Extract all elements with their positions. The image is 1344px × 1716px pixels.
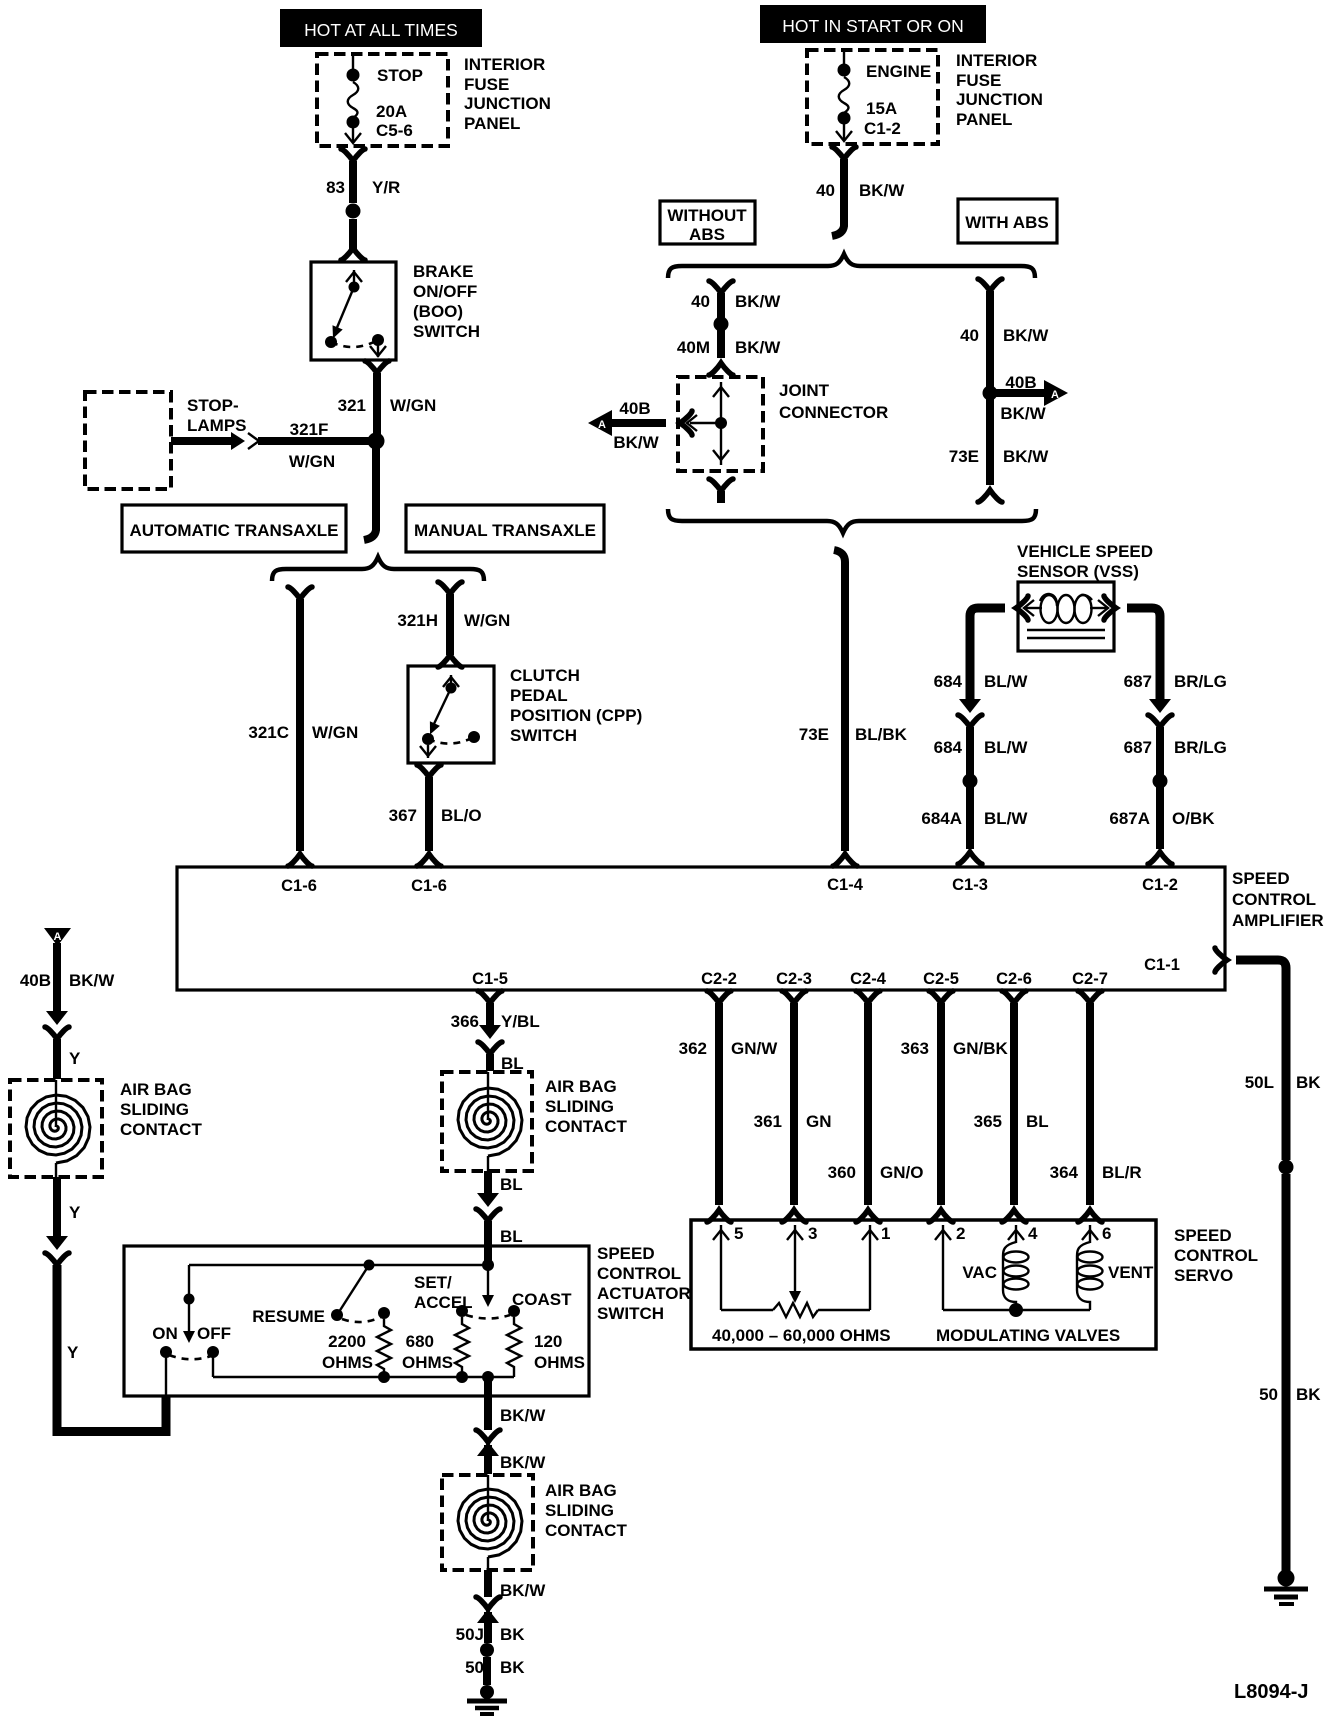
fork below amplifier C2-6	[1002, 991, 1026, 1003]
brace ABS merge	[668, 509, 1036, 533]
fork top of right ABS branch	[978, 279, 1002, 291]
fork top of left ABS branch	[709, 281, 733, 293]
svg-text:O/BK: O/BK	[1172, 809, 1215, 828]
contact 2200 top	[378, 1307, 390, 1319]
wire 40B BK/W (left)	[53, 943, 61, 1012]
svg-text:SLIDING: SLIDING	[545, 1501, 614, 1520]
connector fork below left fuse panel	[341, 149, 365, 161]
svg-text:Y/BL: Y/BL	[501, 1012, 540, 1031]
svg-text:C1-2: C1-2	[864, 119, 901, 138]
connector A arrow (to right)	[996, 373, 1068, 423]
svg-text:CONTROL: CONTROL	[1232, 890, 1316, 909]
svg-text:AIR BAG: AIR BAG	[120, 1080, 192, 1099]
label AIR BAG SLIDING CONTACT 1	[120, 1080, 202, 1139]
wire BK/W out of actuator	[484, 1377, 492, 1430]
svg-text:WITH ABS: WITH ABS	[965, 213, 1048, 232]
arrow down on BL	[477, 1193, 499, 1207]
actuator bottom bus	[213, 1376, 514, 1378]
svg-text:SET/: SET/	[414, 1273, 452, 1292]
wire 361 GN	[790, 1003, 798, 1205]
fork above servo pin 4	[1002, 1210, 1026, 1222]
svg-text:AIR BAG: AIR BAG	[545, 1481, 617, 1500]
svg-text:367: 367	[389, 806, 417, 825]
svg-text:W/GN: W/GN	[390, 396, 436, 415]
svg-text:BL/W: BL/W	[984, 809, 1028, 828]
svg-text:BK/W: BK/W	[69, 971, 115, 990]
svg-text:20A: 20A	[376, 102, 407, 121]
fork below joint connector	[709, 479, 733, 491]
fork above amplifier C1-2	[1148, 852, 1172, 864]
svg-text:CONTACT: CONTACT	[120, 1120, 202, 1139]
fork below BL arrow	[476, 1209, 500, 1221]
svg-text:GN/O: GN/O	[880, 1163, 923, 1182]
servo pin 2	[935, 1224, 965, 1310]
svg-text:SPEED: SPEED	[597, 1244, 655, 1263]
wire 684A BL/W	[966, 787, 974, 849]
svg-text:OHMS: OHMS	[534, 1353, 585, 1372]
svg-text:15A: 15A	[866, 99, 897, 118]
servo pin 5	[713, 1224, 743, 1310]
svg-text:687A: 687A	[1109, 809, 1150, 828]
svg-text:CONTROL: CONTROL	[597, 1264, 681, 1283]
OFF wire down to bottom bus	[212, 1352, 214, 1377]
svg-text:SENSOR (VSS): SENSOR (VSS)	[1017, 562, 1139, 581]
svg-text:W/GN: W/GN	[289, 452, 335, 471]
svg-text:SLIDING: SLIDING	[120, 1100, 189, 1119]
joint connector (dashed)	[678, 377, 763, 471]
svg-text:CONTACT: CONTACT	[545, 1117, 627, 1136]
node 40/40M	[714, 317, 729, 332]
svg-text:BL/O: BL/O	[441, 806, 482, 825]
svg-text:BK: BK	[1296, 1385, 1321, 1404]
svg-text:73E: 73E	[949, 447, 979, 466]
label VEHICLE SPEED SENSOR (VSS)	[1017, 542, 1153, 581]
svg-text:GN/BK: GN/BK	[953, 1039, 1009, 1058]
speed control actuator switch box	[124, 1246, 589, 1396]
fork top of 321H	[438, 582, 462, 594]
svg-text:SPEED: SPEED	[1174, 1226, 1232, 1245]
label JOINT CONNECTOR	[779, 381, 888, 422]
svg-text:321F: 321F	[290, 420, 329, 439]
fork above CPP switch	[438, 655, 462, 667]
svg-text:5: 5	[734, 1224, 743, 1243]
brace ABS split	[668, 254, 1035, 278]
svg-text:C1-6: C1-6	[281, 877, 317, 895]
svg-text:366: 366	[451, 1012, 479, 1031]
svg-text:BL/W: BL/W	[984, 672, 1028, 691]
svg-text:GN: GN	[806, 1112, 832, 1131]
wire BL to air bag contact 2	[486, 1054, 494, 1071]
fork above servo pin 5	[707, 1210, 731, 1222]
arrow up on 50J	[477, 1609, 499, 1623]
svg-text:Y: Y	[67, 1343, 79, 1362]
svg-text:40B: 40B	[619, 399, 650, 418]
svg-text:83: 83	[326, 178, 345, 197]
svg-text:FUSE: FUSE	[956, 71, 1001, 90]
resume contact	[331, 1309, 343, 1321]
svg-text:40: 40	[960, 326, 979, 345]
node 50L/50	[1279, 1160, 1294, 1175]
svg-text:JOINT: JOINT	[779, 381, 830, 400]
fork bottom of right ABS branch	[978, 490, 1002, 502]
wire 321C W/GN	[296, 599, 304, 851]
contact coast	[508, 1305, 520, 1317]
svg-text:BL/BK: BL/BK	[855, 725, 908, 744]
svg-text:HOT IN START OR ON: HOT IN START OR ON	[782, 16, 964, 36]
svg-text:50J: 50J	[456, 1625, 484, 1644]
svg-text:BR/LG: BR/LG	[1174, 672, 1227, 691]
svg-text:362: 362	[679, 1039, 707, 1058]
svg-text:CONTROL: CONTROL	[1174, 1246, 1258, 1265]
wire 40 BK/W (with ABS)	[986, 291, 994, 485]
svg-text:C2-2: C2-2	[701, 970, 737, 988]
fork below 366 arrow	[478, 1042, 502, 1054]
fork above joint connector	[709, 363, 733, 375]
svg-text:365: 365	[974, 1112, 1002, 1131]
svg-text:C1-1: C1-1	[1144, 956, 1180, 974]
dashed arc on/off	[169, 1355, 211, 1359]
arrow down on Y wire	[46, 1236, 68, 1250]
air bag sliding contact 2 (dashed)	[442, 1072, 532, 1171]
svg-text:BK/W: BK/W	[859, 181, 905, 200]
svg-text:AUTOMATIC TRANSAXLE: AUTOMATIC TRANSAXLE	[129, 521, 338, 540]
speed control servo box	[691, 1220, 1156, 1349]
resume switch arm	[337, 1265, 369, 1315]
label CLUTCH PEDAL POSITION (CPP) SWITCH	[510, 666, 642, 745]
svg-text:SLIDING: SLIDING	[545, 1097, 614, 1116]
svg-text:40: 40	[816, 181, 835, 200]
dashed arc set/coast	[466, 1315, 510, 1319]
clutch pedal position (CPP) switch	[408, 666, 494, 763]
svg-text:BK: BK	[1296, 1073, 1321, 1092]
header HOT AT ALL TIMES	[280, 9, 482, 47]
node resume arm top	[364, 1260, 375, 1271]
fork below amplifier C2-5	[929, 991, 953, 1003]
wire Y below air bag contact 1	[53, 1177, 61, 1237]
wire 687A O/BK	[1156, 787, 1164, 849]
fork 684 below arrow	[958, 715, 982, 727]
node actuator entry	[482, 1259, 494, 1271]
brace transaxle split	[272, 557, 484, 581]
svg-text:40: 40	[691, 292, 710, 311]
svg-text:73E: 73E	[799, 725, 829, 744]
servo pin 6	[1082, 1224, 1111, 1243]
fork below amplifier C2-3	[782, 991, 806, 1003]
arrow down on 684	[959, 699, 981, 713]
svg-text:MANUAL TRANSAXLE: MANUAL TRANSAXLE	[414, 521, 596, 540]
header HOT IN START OR ON	[760, 5, 986, 43]
svg-text:GN/W: GN/W	[731, 1039, 778, 1058]
manual transaxle box	[406, 505, 604, 552]
fork below amplifier C2-4	[856, 991, 880, 1003]
connector A arrow (down, top-left)	[44, 928, 71, 946]
set/accel entry arm	[482, 1265, 494, 1307]
svg-text:50L: 50L	[1245, 1073, 1274, 1092]
svg-text:OHMS: OHMS	[402, 1353, 453, 1372]
label STOP-LAMPS	[187, 396, 247, 435]
svg-text:SERVO: SERVO	[1174, 1266, 1233, 1285]
modulating valves bottom bus	[943, 1309, 1090, 1311]
svg-text:ABS: ABS	[689, 225, 725, 244]
wire 321 W/GN	[373, 373, 381, 436]
svg-text:C1-2: C1-2	[1142, 876, 1178, 894]
fork bottom of 321C	[288, 854, 312, 866]
svg-text:CONTACT: CONTACT	[545, 1521, 627, 1540]
switch contact ON	[160, 1346, 172, 1358]
label BRAKE ON/OFF (BOO) SWITCH	[413, 262, 480, 341]
svg-text:1: 1	[881, 1224, 890, 1243]
arrow up on BK/W	[477, 1442, 499, 1456]
node on/off feed	[184, 1294, 195, 1305]
svg-text:SWITCH: SWITCH	[413, 322, 480, 341]
node 680 bottom	[456, 1371, 468, 1383]
svg-text:ON: ON	[152, 1324, 178, 1343]
interior fuse junction panel box (left)	[317, 54, 448, 146]
label interior fuse junction panel (right)	[956, 51, 1043, 129]
svg-text:ON/OFF: ON/OFF	[413, 282, 477, 301]
svg-text:ENGINE: ENGINE	[866, 62, 931, 81]
wire 365 BL	[1010, 1003, 1018, 1205]
arrow down on 366	[479, 1025, 501, 1039]
wire 50 BK (right)	[1282, 1174, 1291, 1572]
wire 684 BL/W lower	[966, 727, 974, 775]
svg-text:C1-5: C1-5	[472, 970, 508, 988]
svg-text:WITHOUT: WITHOUT	[667, 206, 747, 225]
VSS left wire joint	[970, 596, 1028, 700]
svg-text:VENT: VENT	[1108, 1263, 1154, 1282]
svg-text:PANEL: PANEL	[464, 114, 520, 133]
svg-text:MODULATING VALVES: MODULATING VALVES	[936, 1326, 1120, 1345]
wire 364 BL/R	[1086, 1003, 1094, 1205]
label interior fuse junction panel (left)	[464, 55, 551, 133]
svg-text:(BOO): (BOO)	[413, 302, 463, 321]
svg-text:PANEL: PANEL	[956, 110, 1012, 129]
svg-text:HOT AT ALL TIMES: HOT AT ALL TIMES	[304, 20, 458, 40]
connector A arrow (to left)	[588, 399, 692, 452]
svg-text:360: 360	[828, 1163, 856, 1182]
wire BK/W below air bag contact 3	[484, 1570, 492, 1597]
svg-text:687: 687	[1124, 672, 1152, 691]
interior fuse junction panel box (right)	[807, 50, 938, 144]
label AIR BAG SLIDING CONTACT 3	[545, 1481, 627, 1540]
fork above amplifier C1-6	[417, 854, 441, 866]
svg-text:JUNCTION: JUNCTION	[464, 94, 551, 113]
svg-text:W/GN: W/GN	[312, 723, 358, 742]
svg-text:321C: 321C	[248, 723, 289, 742]
dashed arc resume	[342, 1317, 381, 1322]
svg-text:VEHICLE SPEED: VEHICLE SPEED	[1017, 542, 1153, 561]
svg-text:4: 4	[1028, 1224, 1038, 1243]
wire 40 BK/W (without ABS)	[717, 293, 725, 318]
svg-text:BK/W: BK/W	[500, 1453, 546, 1472]
svg-text:OFF: OFF	[197, 1324, 231, 1343]
svg-text:BK/W: BK/W	[1000, 404, 1046, 423]
svg-text:364: 364	[1050, 1163, 1079, 1182]
stop-lamps box (dashed)	[85, 392, 171, 489]
wire 360 GN/O	[864, 1003, 872, 1205]
air bag sliding contact 1 (dashed)	[10, 1080, 102, 1177]
node 40B branch	[983, 386, 998, 401]
svg-text:POSITION (CPP): POSITION (CPP)	[510, 706, 642, 725]
svg-text:321H: 321H	[397, 611, 438, 630]
wire Y to air bag contact 1	[53, 1039, 61, 1079]
svg-text:BRAKE: BRAKE	[413, 262, 473, 281]
svg-text:INTERIOR: INTERIOR	[464, 55, 545, 74]
svg-text:BL/R: BL/R	[1102, 1163, 1142, 1182]
wire 363 GN/BK	[937, 1003, 945, 1205]
speed control amplifier box	[177, 867, 1225, 990]
wire 73E BL/BK	[834, 550, 845, 851]
label SPEED CONTROL AMPLIFIER	[1232, 869, 1324, 930]
svg-text:STOP-: STOP-	[187, 396, 239, 415]
svg-text:BR/LG: BR/LG	[1174, 738, 1227, 757]
svg-text:INTERIOR: INTERIOR	[956, 51, 1037, 70]
wire BL below air bag contact 2	[484, 1171, 492, 1194]
wire 687 BR/LG lower	[1156, 727, 1164, 775]
air bag sliding contact 3 (dashed)	[442, 1475, 533, 1570]
fork below air bag 3	[476, 1597, 500, 1609]
svg-text:C2-5: C2-5	[923, 970, 959, 988]
svg-text:JUNCTION: JUNCTION	[956, 90, 1043, 109]
wire BK/W to air bag contact 3	[484, 1445, 492, 1474]
VENT modulating valve coil	[1077, 1242, 1154, 1310]
brake on/off (BOO) switch	[311, 262, 396, 360]
fork above amplifier C1-4	[833, 854, 857, 866]
connector fork below BOO switch	[365, 361, 389, 373]
resistor 2200 OHMS	[377, 1319, 391, 1374]
with ABS box	[958, 199, 1057, 243]
svg-text:C1-3: C1-3	[952, 876, 988, 894]
svg-text:PEDAL: PEDAL	[510, 686, 568, 705]
svg-text:C2-3: C2-3	[776, 970, 812, 988]
servo pin 3 with wiper arrow	[787, 1224, 817, 1303]
svg-text:AMPLIFIER: AMPLIFIER	[1232, 911, 1324, 930]
svg-text:680: 680	[406, 1332, 434, 1351]
svg-text:50: 50	[1259, 1385, 1278, 1404]
automatic transaxle box	[122, 505, 346, 552]
svg-text:40B: 40B	[20, 971, 51, 990]
wire 40M BK/W	[717, 330, 725, 358]
wire 40 BK/W	[832, 159, 844, 236]
junction node 321/321F	[368, 433, 385, 450]
connector fork below right fuse panel	[832, 147, 856, 159]
wire 366 Y/BL	[486, 1003, 494, 1031]
svg-text:BK/W: BK/W	[735, 338, 781, 357]
svg-text:COAST: COAST	[512, 1290, 572, 1309]
svg-text:ACTUATOR: ACTUATOR	[597, 1284, 691, 1303]
label AIR BAG SLIDING CONTACT 2	[545, 1077, 627, 1136]
svg-text:687: 687	[1124, 738, 1152, 757]
svg-text:Y: Y	[69, 1203, 81, 1222]
svg-text:VAC: VAC	[962, 1263, 997, 1282]
contact set/accel	[456, 1305, 468, 1317]
servo pin 4	[1008, 1224, 1038, 1243]
svg-text:BK/W: BK/W	[613, 433, 659, 452]
resistor 120 OHMS	[507, 1317, 521, 1374]
svg-text:C2-4: C2-4	[850, 970, 887, 988]
fork 687 below arrow	[1148, 715, 1172, 727]
svg-text:BK/W: BK/W	[500, 1406, 546, 1425]
svg-text:361: 361	[754, 1112, 782, 1131]
svg-text:684: 684	[934, 738, 963, 757]
actuator top bus wire	[189, 1246, 488, 1295]
wire Y down to corner	[57, 1265, 166, 1432]
svg-text:BL: BL	[1026, 1112, 1049, 1131]
svg-text:SWITCH: SWITCH	[510, 726, 577, 745]
svg-text:321: 321	[338, 396, 366, 415]
wire 362 GN/W	[715, 1003, 723, 1205]
svg-text:A: A	[1051, 389, 1059, 401]
fork below CPP switch	[417, 765, 441, 777]
vehicle speed sensor box	[1018, 582, 1114, 651]
fork below amplifier C1-5	[478, 991, 502, 1003]
svg-text:C1-6: C1-6	[411, 877, 447, 895]
svg-text:40,000 – 60,000 OHMS: 40,000 – 60,000 OHMS	[712, 1326, 891, 1345]
svg-text:C2-7: C2-7	[1072, 970, 1108, 988]
svg-text:40M: 40M	[677, 338, 710, 357]
svg-text:BK/W: BK/W	[1003, 447, 1049, 466]
wire 50 BK (left)	[483, 1657, 491, 1685]
wire 321F W/GN to stop-lamps	[171, 437, 372, 445]
svg-text:3: 3	[808, 1224, 817, 1243]
fuse ENGINE 15A C1-2	[836, 50, 931, 141]
connector fork above BOO switch	[341, 248, 365, 260]
without ABS box	[660, 201, 755, 244]
svg-text:2200: 2200	[328, 1332, 366, 1351]
svg-text:C2-6: C2-6	[996, 970, 1032, 988]
on/off switch arm	[183, 1304, 195, 1343]
fuse STOP 20A C5-6	[345, 54, 423, 143]
node 684/684A	[963, 774, 978, 789]
svg-text:OHMS: OHMS	[322, 1353, 373, 1372]
fork below amplifier C2-7	[1078, 991, 1102, 1003]
fork top of 321C	[288, 587, 312, 599]
svg-text:W/GN: W/GN	[464, 611, 510, 630]
svg-text:BK: BK	[500, 1658, 525, 1677]
node 50J/50	[480, 1643, 494, 1657]
fork above servo pin 1	[856, 1210, 880, 1222]
ground (right)	[1264, 1570, 1308, 1605]
svg-text:2: 2	[956, 1224, 965, 1243]
ground (left)	[467, 1685, 507, 1714]
svg-text:120: 120	[534, 1332, 562, 1351]
label SET/ACCEL	[414, 1273, 473, 1312]
wire 83 Y/R	[349, 161, 357, 203]
switch contact OFF	[207, 1346, 219, 1358]
ON wire down to box edge	[165, 1352, 167, 1396]
node on wire 83	[346, 204, 361, 219]
svg-text:SWITCH: SWITCH	[597, 1304, 664, 1323]
svg-text:CONNECTOR: CONNECTOR	[779, 403, 888, 422]
wire BL into actuator	[484, 1221, 492, 1248]
svg-text:C1-4: C1-4	[827, 876, 864, 894]
svg-text:BL: BL	[500, 1227, 523, 1246]
label SPEED CONTROL ACTUATOR SWITCH	[597, 1244, 691, 1323]
label SPEED CONTROL SERVO	[1174, 1226, 1258, 1285]
svg-text:684: 684	[934, 672, 963, 691]
arrow down on 687	[1149, 699, 1171, 713]
svg-text:50: 50	[465, 1658, 484, 1677]
svg-text:BK/W: BK/W	[1003, 326, 1049, 345]
node 687/687A	[1153, 774, 1168, 789]
wire 321H W/GN	[446, 594, 454, 655]
svg-text:C5-6: C5-6	[376, 121, 413, 140]
resistor 680 OHMS	[455, 1317, 469, 1374]
svg-text:STOP: STOP	[377, 66, 423, 85]
fork below amplifier C2-2	[707, 991, 731, 1003]
node VAC bottom	[1009, 1303, 1023, 1317]
fork above servo pin 3	[782, 1210, 806, 1222]
